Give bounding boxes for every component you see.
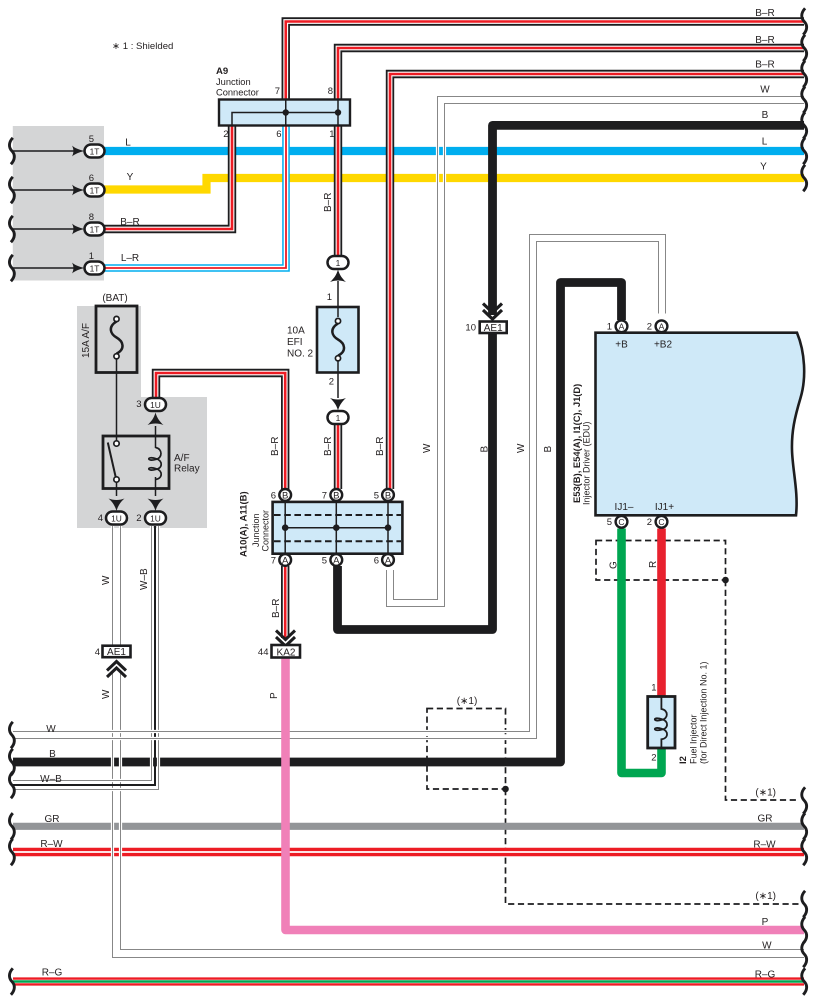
relay pin numbers	[98, 399, 142, 524]
svg-text:1: 1	[336, 258, 341, 268]
break R-G row right	[802, 968, 807, 994]
svg-text:10: 10	[465, 323, 476, 334]
svg-text:B: B	[385, 490, 391, 501]
break R-W row right	[802, 839, 807, 865]
svg-text:2: 2	[223, 129, 228, 140]
EDU pin 5(C) circle	[616, 516, 628, 528]
svg-text:W–B: W–B	[139, 568, 150, 590]
svg-text:7: 7	[275, 86, 280, 97]
svg-text:B: B	[480, 446, 491, 453]
svg-text:+B2: +B2	[654, 340, 673, 351]
svg-text:∗ 1 : Shielded: ∗ 1 : Shielded	[112, 41, 173, 52]
A/F relay box	[103, 373, 169, 497]
wire B from AE1 10 down and to A10 pin 5(A)	[338, 334, 493, 630]
break R-G row left	[9, 968, 14, 994]
svg-text:1: 1	[89, 251, 94, 262]
wire B-R row 3 to A10 pin 5(B)	[390, 74, 804, 489]
wire W from AE1 4 down to bottom W row	[113, 671, 805, 958]
svg-text:4: 4	[98, 513, 103, 524]
connector 2 1U	[145, 499, 166, 525]
svg-text:B–R: B–R	[755, 35, 774, 46]
EDU pin 2(A) circle	[656, 320, 668, 332]
svg-text:3: 3	[136, 399, 141, 410]
gray panel behind A/F relay	[77, 397, 207, 528]
1T connector row 8	[12, 223, 105, 236]
wire L blue row	[103, 147, 804, 155]
svg-text:Fuel Injector: Fuel Injector	[689, 714, 699, 764]
svg-text:G: G	[609, 561, 620, 569]
wire B-R from relay connector 3 1U to A10 pin 6(B)	[156, 373, 285, 489]
shield dashed drain wire left	[506, 789, 800, 904]
break 1T row 8 left	[9, 216, 14, 242]
svg-text:2: 2	[651, 753, 656, 764]
1T connector row 1	[12, 262, 105, 275]
wire B-R from fuse connector to A10 pin 7(B)	[334, 424, 342, 489]
svg-text:I2: I2	[678, 756, 689, 764]
svg-text:5: 5	[374, 491, 379, 502]
svg-text:B: B	[543, 446, 554, 453]
svg-text:B–R: B–R	[375, 437, 386, 456]
label (BAT)	[102, 293, 127, 304]
EDU pin numbers	[607, 322, 652, 529]
fuse 15A A/F	[96, 306, 137, 373]
svg-text:KA2: KA2	[277, 647, 296, 658]
svg-text:Relay: Relay	[174, 464, 200, 475]
svg-text:EFI: EFI	[287, 337, 303, 348]
A10 pin 5(A) circle	[330, 554, 342, 566]
label (*1) above left shield box	[457, 696, 478, 707]
svg-text:1T: 1T	[90, 147, 100, 157]
rotated label B-R above fuse	[323, 193, 334, 212]
break shield right upper	[802, 787, 807, 813]
svg-text:15A A/F: 15A A/F	[81, 323, 92, 358]
fuse pin numbers	[327, 292, 334, 388]
svg-text:1: 1	[651, 683, 656, 694]
wire R red from EDU IJ1+ to injector pin 1	[657, 529, 666, 697]
svg-text:Y: Y	[760, 161, 767, 172]
wire L-R from A9 pin 6 to connector 1 1T	[103, 126, 286, 269]
svg-text:W: W	[516, 443, 527, 453]
wire R-G row	[13, 977, 804, 985]
label I2 Fuel Injector rotated	[678, 661, 709, 764]
EDU pin 2(C) circle	[656, 516, 668, 528]
svg-text:Y: Y	[127, 172, 134, 183]
svg-text:W: W	[762, 941, 772, 952]
break B row left	[9, 749, 14, 775]
svg-text:B: B	[333, 490, 339, 501]
gray panel behind 1T connectors	[13, 126, 104, 281]
wire GR gray row	[13, 823, 804, 830]
wire B-R from A9 pin 2 to connector 8 1T	[103, 126, 232, 230]
svg-text:W: W	[760, 84, 770, 95]
wire B row to EDU +B	[13, 283, 622, 763]
svg-text:7: 7	[271, 556, 276, 567]
AE1 4 box with chevrons	[103, 646, 131, 677]
fuel injector I2 box	[648, 697, 675, 749]
svg-text:R–G: R–G	[755, 969, 776, 980]
EDU pin 1(A) circle	[616, 320, 628, 332]
wire W-B from relay 2 1U to left row	[13, 526, 159, 790]
wire B-R from A9 pin 1 to fuse connector	[334, 126, 342, 257]
svg-text:R: R	[648, 561, 659, 568]
svg-text:5: 5	[607, 517, 612, 528]
svg-text:GR: GR	[758, 813, 773, 824]
break GR row right	[802, 813, 807, 839]
svg-text:1T: 1T	[90, 264, 100, 274]
svg-text:A: A	[282, 555, 289, 566]
junction dot on shield left	[502, 786, 509, 793]
break W row bottom right	[802, 941, 807, 967]
A9 pin numbers	[223, 86, 334, 140]
svg-text:1U: 1U	[150, 514, 161, 524]
svg-text:6: 6	[276, 129, 281, 140]
svg-text:L–R: L–R	[121, 253, 139, 264]
svg-text:8: 8	[89, 212, 94, 223]
wire Y yellow row with jog	[103, 178, 804, 190]
bottom right wire labels	[753, 788, 776, 981]
svg-text:(∗1): (∗1)	[755, 788, 776, 799]
rotated label B-R above KA2	[271, 599, 282, 618]
break R-W row left	[9, 839, 14, 865]
svg-text:1T: 1T	[90, 225, 100, 235]
label 15A A/F rotated	[81, 323, 92, 358]
svg-text:6: 6	[89, 173, 94, 184]
svg-text:A10(A), A11(B): A10(A), A11(B)	[239, 491, 250, 557]
svg-text:W: W	[101, 689, 112, 699]
svg-text:+B: +B	[615, 340, 628, 351]
connector symbol 1 above fuse	[328, 256, 349, 282]
svg-text:7: 7	[322, 491, 327, 502]
label 10A EFI NO.2	[287, 326, 314, 360]
svg-text:W–B: W–B	[40, 774, 62, 785]
svg-text:B–R: B–R	[270, 437, 281, 456]
svg-text:B–R: B–R	[323, 437, 334, 456]
svg-text:Injector Driver (EDU): Injector Driver (EDU)	[582, 421, 592, 505]
svg-text:(∗1): (∗1)	[457, 696, 478, 707]
svg-text:A: A	[333, 555, 340, 566]
svg-text:B–R: B–R	[755, 8, 774, 19]
1T connector row 5	[12, 145, 105, 158]
break Y row right	[802, 165, 807, 191]
break W-B row left	[9, 772, 14, 798]
svg-text:2: 2	[329, 377, 334, 388]
svg-text:W: W	[46, 724, 56, 735]
svg-text:R–W: R–W	[753, 840, 776, 851]
rotated wire labels column mid-page	[270, 437, 554, 456]
svg-text:R–G: R–G	[42, 968, 63, 979]
wire B-R row 2 to A9 pin 8	[338, 48, 804, 100]
svg-text:1U: 1U	[150, 400, 161, 410]
svg-text:Junction: Junction	[251, 513, 261, 547]
svg-text:(∗1): (∗1)	[755, 891, 776, 902]
svg-text:A9: A9	[216, 66, 228, 77]
connector symbol 1 below fuse	[328, 398, 349, 424]
shield dashed box around G and R wires	[596, 541, 726, 581]
junction connector A10 box	[273, 502, 403, 554]
break B row right	[802, 112, 807, 138]
1T pin numbers	[89, 134, 94, 262]
svg-text:R–W: R–W	[40, 839, 63, 850]
break 1T row 5 left	[9, 138, 14, 164]
break B-R row2 right	[802, 35, 807, 61]
svg-text:L: L	[125, 138, 131, 149]
fuse 10A EFI NO.2	[317, 281, 359, 398]
A10 pin 5(B) circle	[382, 489, 394, 501]
wire B-R from A10 pin 7(A) to KA2	[281, 566, 289, 638]
svg-text:1: 1	[329, 129, 334, 140]
wire B-R row 1 to A9 pin 7	[286, 22, 804, 100]
svg-text:A: A	[385, 555, 392, 566]
break L row right	[802, 138, 807, 164]
label A9	[216, 66, 259, 98]
break 1T row 6 left	[9, 177, 14, 203]
EDU terminal names	[615, 340, 675, 514]
svg-text:A/F: A/F	[174, 453, 190, 464]
svg-text:5: 5	[89, 134, 94, 145]
bottom left wire labels	[40, 724, 63, 979]
svg-text:5: 5	[322, 556, 327, 567]
wire W top row to A10 pin 6(A)	[387, 97, 805, 607]
connector 4 1U	[106, 499, 127, 525]
label EDU rotated	[571, 384, 592, 505]
wire B from top row to AE1 10	[493, 125, 805, 315]
svg-text:1: 1	[336, 413, 341, 423]
svg-text:B–R: B–R	[323, 193, 334, 212]
svg-text:1: 1	[607, 322, 612, 333]
break 1T row 1 left	[9, 255, 14, 281]
wire R-W row	[13, 848, 804, 857]
label A/F Relay	[174, 453, 200, 475]
rotated label P below KA2	[269, 692, 280, 699]
svg-text:P: P	[762, 917, 769, 928]
break W row left	[9, 722, 14, 748]
svg-text:2: 2	[136, 513, 141, 524]
svg-text:(BAT): (BAT)	[102, 293, 127, 304]
label A10(A), A11(B) rotated	[239, 491, 271, 557]
wire W from relay 4 1U to AE1 4	[113, 526, 121, 646]
svg-text:2: 2	[647, 322, 652, 333]
svg-text:4: 4	[95, 647, 100, 658]
svg-text:6: 6	[374, 556, 379, 567]
AE1 KA2 pin numbers	[95, 323, 476, 659]
svg-text:Connector: Connector	[216, 88, 259, 98]
injector pin numbers	[651, 683, 656, 764]
svg-text:1T: 1T	[90, 186, 100, 196]
svg-text:B–R: B–R	[271, 599, 282, 618]
shield dashed box (*1) around B wire	[427, 709, 506, 790]
svg-text:IJ1+: IJ1+	[655, 502, 674, 513]
junction dot on shield right	[722, 577, 729, 584]
connector 3 1U	[145, 398, 166, 425]
svg-text:B: B	[49, 749, 56, 760]
svg-text:1: 1	[327, 292, 332, 303]
svg-text:10A: 10A	[287, 326, 305, 337]
wire W left row to EDU +B2	[13, 235, 666, 739]
top right wire name labels	[755, 8, 774, 173]
svg-text:B: B	[762, 110, 769, 121]
svg-text:IJ1–: IJ1–	[615, 502, 634, 513]
svg-text:W: W	[101, 575, 112, 585]
labels G and R in shield box	[609, 561, 660, 569]
svg-text:8: 8	[328, 86, 333, 97]
wire G green from EDU IJ1- to injector pin 2	[622, 529, 662, 774]
svg-text:E53(B), E54(A), I1(C), J1(D): E53(B), E54(A), I1(C), J1(D)	[571, 384, 582, 503]
svg-text:AE1: AE1	[107, 647, 126, 658]
left block wire labels	[120, 138, 139, 265]
svg-text:P: P	[269, 692, 280, 699]
svg-text:AE1: AE1	[484, 323, 503, 334]
shield dashed drain wire right	[726, 580, 800, 800]
svg-text:1U: 1U	[111, 514, 122, 524]
A10 pin 6(A) circle	[382, 554, 394, 566]
break B-R row3 right	[802, 61, 807, 87]
break GR row left	[9, 813, 14, 839]
A10 pin 6(B) circle	[279, 489, 291, 501]
svg-text:Junction: Junction	[216, 77, 251, 87]
A10 pin 7(A) circle	[279, 554, 291, 566]
break shield right lower	[802, 891, 807, 917]
svg-text:A: A	[659, 322, 665, 332]
A10 pin 7(B) circle	[330, 489, 342, 501]
gray panel behind 15A A/F fuse	[77, 306, 141, 398]
svg-text:44: 44	[258, 647, 269, 658]
svg-text:Connector: Connector	[261, 510, 271, 552]
svg-text:(for Direct Injection No. 1): (for Direct Injection No. 1)	[699, 661, 709, 764]
svg-text:C: C	[658, 517, 664, 527]
svg-text:2: 2	[647, 517, 652, 528]
break P row right	[802, 917, 807, 943]
AE1 10 box with chevrons	[480, 304, 507, 334]
junction connector A9 box	[219, 100, 350, 126]
A10 pin numbers	[271, 491, 379, 567]
svg-text:B–R: B–R	[120, 217, 139, 228]
note shielded	[112, 41, 173, 52]
1T connector row 6	[12, 184, 105, 197]
svg-text:B: B	[282, 490, 288, 501]
svg-text:W: W	[422, 443, 433, 453]
svg-text:GR: GR	[45, 814, 60, 825]
svg-text:C: C	[618, 517, 624, 527]
svg-text:NO. 2: NO. 2	[287, 349, 314, 360]
break W row right	[802, 87, 807, 113]
rotated labels W and W-B below relay	[101, 568, 150, 699]
svg-text:L: L	[762, 136, 768, 147]
wire P pink from KA2 to right row	[286, 658, 805, 931]
KA2 44 box with chevrons	[272, 631, 301, 659]
svg-text:A: A	[619, 322, 625, 332]
EDU injector driver box	[596, 333, 805, 516]
svg-text:6: 6	[271, 491, 276, 502]
svg-text:B–R: B–R	[755, 60, 774, 71]
break B-R row1 right	[802, 8, 807, 34]
